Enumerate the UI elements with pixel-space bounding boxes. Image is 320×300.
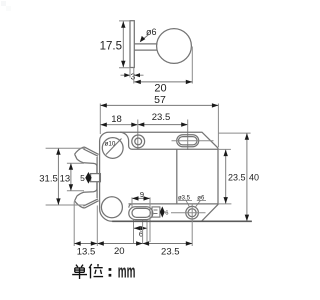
svg-text:17.5: 17.5 <box>100 41 122 53</box>
jaw bottom hook <box>75 182 99 208</box>
svg-text:3: 3 <box>131 71 136 81</box>
step line bottom <box>129 203 218 205</box>
dim 31.5 line <box>57 148 59 205</box>
hole ø3.5 bottom right <box>186 206 199 219</box>
dim 17.5 arrows <box>121 21 125 28</box>
jaw tab <box>91 174 101 182</box>
svg-text:9: 9 <box>140 190 144 199</box>
dim 9 line <box>132 197 150 199</box>
dim 13 extension lines <box>67 163 84 191</box>
bottom dims arrows <box>74 241 81 245</box>
dim 18 line <box>100 124 138 126</box>
dim 40 line <box>246 133 248 221</box>
dim 6 line <box>134 227 147 229</box>
svg-text:5: 5 <box>80 173 85 183</box>
svg-text:mm: mm <box>118 260 136 281</box>
dim 17.5 extension lines <box>119 21 130 68</box>
dim 20 line <box>134 81 192 83</box>
dim 20 extension lines <box>130 47 192 84</box>
dim 31.5 extension lines <box>46 148 86 205</box>
hole ø10 <box>102 138 123 159</box>
dim 20 arrows <box>134 80 141 84</box>
svg-text:ø10: ø10 <box>105 140 116 147</box>
dim 3 arrows <box>121 74 144 76</box>
small hole top <box>132 135 145 148</box>
hole crosshair <box>171 212 206 214</box>
svg-text:40: 40 <box>249 173 259 183</box>
unit colon <box>109 268 112 271</box>
label ø6 leader <box>141 35 149 42</box>
jaw top hook <box>75 147 99 173</box>
bottom edge dark line <box>112 220 252 222</box>
dim 23.5 right extension lines <box>218 149 231 204</box>
bottom slot inner <box>132 208 150 217</box>
dim 6 extension lines <box>134 220 148 244</box>
mid vertical edge <box>176 149 178 203</box>
svg-text:13.5: 13.5 <box>77 247 96 258</box>
svg-text:ø6: ø6 <box>146 27 157 37</box>
small box right of slot <box>152 207 160 217</box>
dim 23.5 top line <box>138 124 188 126</box>
top slot crosshair <box>172 140 214 142</box>
dim 9 extension lines <box>132 197 150 242</box>
svg-text:ø3.5: ø3.5 <box>178 196 191 202</box>
dim 13 line <box>70 163 72 191</box>
dim 57 line <box>100 104 218 106</box>
bottom dims extension lines <box>74 202 192 247</box>
svg-text:23.5: 23.5 <box>152 112 171 123</box>
svg-text:20: 20 <box>114 246 125 257</box>
svg-text:23.5: 23.5 <box>228 173 246 183</box>
roller circle bottom-left <box>101 197 122 218</box>
boss dip bottom-left <box>129 204 132 208</box>
faint corner mark <box>1 1 6 6</box>
dim 23.5 top extension lines <box>138 120 188 151</box>
top slot outer <box>177 135 199 147</box>
body outline <box>100 132 218 221</box>
dim 5 diamond <box>85 172 91 184</box>
dim 57 arrows <box>100 103 107 107</box>
bottom dims line <box>74 243 192 245</box>
dim 57 extension lines <box>100 104 218 148</box>
boss dip top-left <box>120 132 132 149</box>
step line top <box>132 148 218 150</box>
bottom slot outer <box>129 207 153 220</box>
diamond arrows 6 <box>160 206 165 217</box>
plate (side view) <box>130 21 134 68</box>
svg-text:20: 20 <box>154 83 166 95</box>
svg-text:18: 18 <box>111 114 122 125</box>
knob ball <box>157 29 192 64</box>
svg-text:31.5: 31.5 <box>39 174 58 185</box>
svg-text:13: 13 <box>60 174 71 185</box>
unit text CJK dan <box>72 265 87 279</box>
svg-text:ø6: ø6 <box>197 196 205 202</box>
top slot inner <box>179 137 198 145</box>
dim 23.5 right line <box>225 150 227 204</box>
stem <box>134 44 157 50</box>
dim 40 extension lines <box>202 133 252 221</box>
svg-text:57: 57 <box>154 94 166 106</box>
svg-text:23.5: 23.5 <box>161 247 180 258</box>
unit text CJK wei <box>89 264 103 278</box>
dim 17.5 line <box>122 21 124 67</box>
svg-text:6: 6 <box>165 211 168 217</box>
